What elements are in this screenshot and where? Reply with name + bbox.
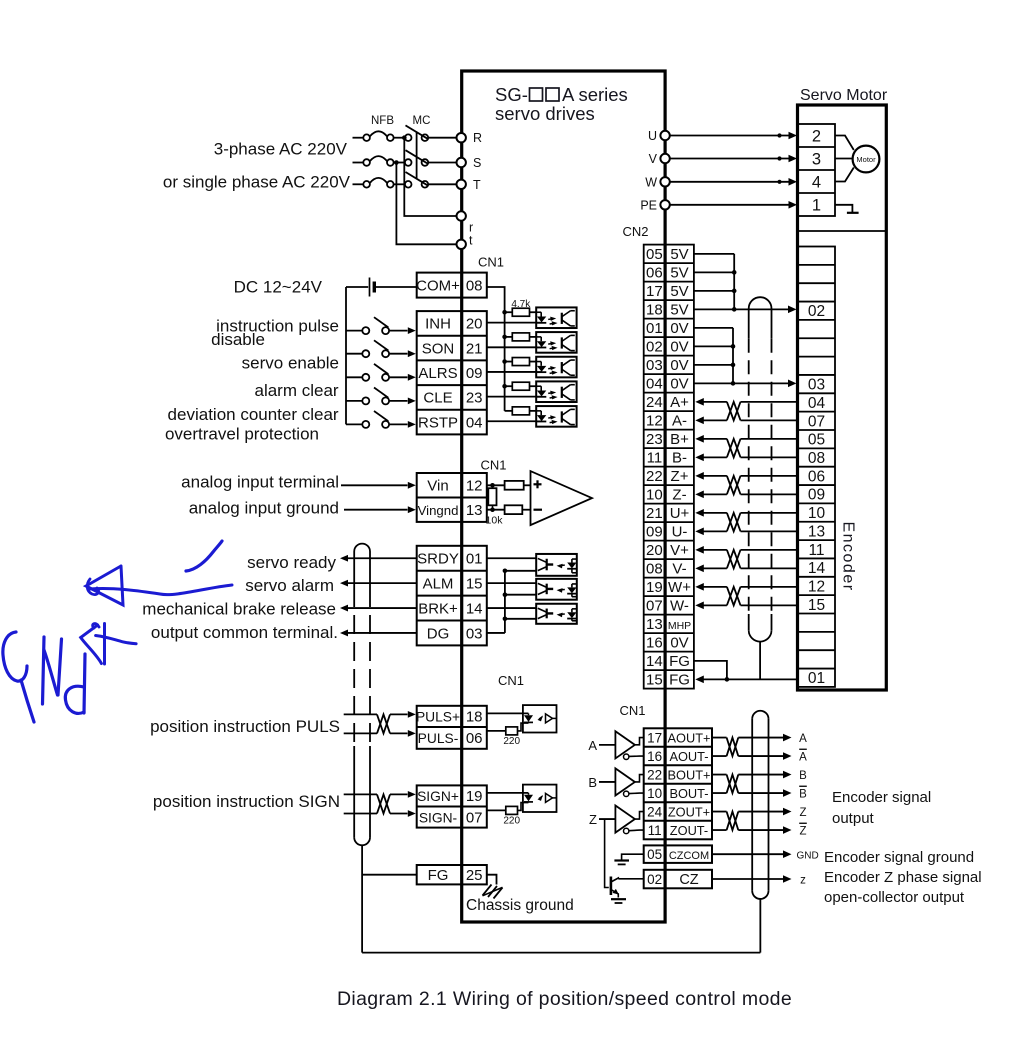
svg-text:CZCOM: CZCOM [669,850,709,862]
resistor 220 [487,730,506,732]
wire ZOUT to output arrows [738,811,783,813]
svg-text:19: 19 [646,579,663,596]
terminal U [660,131,669,140]
svg-text:11: 11 [647,450,663,467]
svg-text:Z: Z [589,812,597,827]
svg-text:05: 05 [647,847,662,862]
wire encoder pair B+ to CN2 [695,435,704,443]
wire shield bottom loop [362,952,760,954]
wire ZOUT+ [712,811,727,813]
wire output servo alarm [340,580,348,587]
junction dot 5V bus [732,270,737,275]
svg-text:position instruction PULS: position instruction PULS [150,717,340,736]
wire NFB to MC R [394,137,405,139]
wire buffer B input [599,781,615,783]
svg-text:18: 18 [466,709,483,726]
wire opto return input 3 [487,371,536,373]
wire branch to terminal t [396,163,456,245]
resistor 4.7k input 2 [505,336,513,338]
junction dot 10k bottom [490,507,495,512]
optocoupler output 2 [536,579,577,600]
svg-text:08: 08 [808,450,825,467]
svg-text:MHP: MHP [668,620,691,632]
wire opto return input 4 [487,396,536,398]
wire BOUT- [712,792,727,794]
wire twisted pair to CN1 [390,713,408,715]
connector CN1 SIGN [417,785,487,827]
svg-text:U+: U+ [670,505,690,522]
breaker NFB contact S [363,159,370,166]
svg-text:16: 16 [646,635,663,652]
svg-text:22: 22 [647,767,662,782]
svg-text:15: 15 [466,575,483,592]
svg-text:11: 11 [648,823,662,838]
junction dot 0V bus [731,344,736,349]
wire twisted pair U to encoder [741,512,799,514]
svg-text:02: 02 [647,872,662,887]
connector CN1 input table [417,311,487,434]
svg-text:10: 10 [808,505,826,522]
svg-text:t: t [469,234,473,248]
optocoupler output 1 [536,554,577,576]
switch contact input 1 [346,330,362,332]
cable shield encoder [749,297,772,308]
chassis ground symbol [483,885,492,896]
svg-text:24: 24 [647,804,663,819]
connector CN1 05 CZCOM [644,845,712,863]
transistor Q1 CZ open collector [610,877,613,896]
svg-text:07: 07 [646,598,663,615]
svg-text:BOUT+: BOUT+ [667,767,710,782]
svg-text:V-: V- [672,561,686,578]
blue scribble letter d [65,686,84,713]
wire NFB to MC S [394,162,405,164]
junction dot R branch [402,135,407,140]
svg-text:SRDY: SRDY [417,551,459,568]
svg-text:A-: A- [672,413,687,430]
wire output opto 3 [487,607,536,609]
line driver buffer Z [615,805,635,832]
svg-text:18: 18 [646,302,663,319]
svg-text:U-: U- [672,524,688,541]
wire PE to motor pin [670,204,790,206]
svg-text:deviation counter clear: deviation counter clear [168,405,339,424]
wire AOUT- [712,755,727,757]
resistor 220 [487,809,506,811]
wire twisted pair to CN1 [390,793,408,795]
servo drive enclosure box [462,71,665,922]
junction dot resistor bus [502,310,507,315]
svg-text:0V: 0V [670,635,688,652]
resistor 4.7k input 4 [505,385,513,387]
svg-text:or single phase AC 220V: or single phase AC 220V [163,172,351,191]
optocoupler output 3 [536,604,577,624]
wire encoder pair W+ to CN2 [695,583,704,591]
svg-text:B+: B+ [670,431,689,448]
wire switch to CN1 input 3 [389,376,407,378]
junction dot output bus 1 [503,569,508,574]
wire buffer Z noninverting output [635,812,644,819]
contactor MC mechanical link [416,132,418,179]
wire encoder pair V- to CN2 [695,565,704,573]
svg-text:Servo Motor: Servo Motor [800,87,888,104]
connector CN1 COM+ 08 [417,273,487,298]
svg-text:220: 220 [503,816,520,827]
svg-text:Encoder signal: Encoder signal [832,789,931,806]
svg-text:Encoder: Encoder [840,521,857,591]
svg-text:23: 23 [466,390,483,407]
connector CN2 table [644,245,694,689]
wire pulse pair [344,793,377,795]
junction dot 10k top [490,483,495,488]
wire encoder pair A- to CN2 [695,417,704,425]
svg-text:PULS-: PULS- [418,731,459,746]
svg-text:FG: FG [669,672,690,689]
junction dot resistor bus [502,359,507,364]
svg-text:Chassis ground: Chassis ground [466,897,574,914]
svg-text:Vin: Vin [427,478,448,495]
blue scribble arrow 1 [86,566,123,605]
line driver buffer A [615,731,635,758]
terminal W [660,177,669,186]
svg-text:MC: MC [413,115,431,127]
motor box divider [798,230,887,232]
wire output opto 2 [487,582,536,584]
wire twisted pair A to encoder [741,401,799,403]
wire encoder pair Z- to CN2 [695,491,704,499]
connector CN1 02 CZ [644,870,712,889]
wire encoder 01 to CN2 15 FG [695,676,704,684]
svg-text:5V: 5V [670,246,688,263]
svg-text:CN1: CN1 [619,703,645,718]
svg-text:3-phase AC 220V: 3-phase AC 220V [214,139,348,158]
twisted pair ZOUT [727,812,739,831]
svg-text:4: 4 [812,174,821,192]
svg-text:V+: V+ [670,542,689,559]
wire U to motor pin [670,135,790,137]
optocoupler input 3 [536,357,576,378]
wire twisted pair B to encoder [741,438,799,440]
wire 0V bus [694,327,733,329]
resistor 4.7k input 5 [505,410,513,412]
svg-text:GND: GND [797,850,819,861]
svg-text:19: 19 [466,788,483,805]
svg-text:NFB: NFB [371,115,394,127]
wire 0V to encoder 03 [733,382,789,384]
svg-text:06: 06 [808,468,825,485]
svg-text:W-: W- [670,598,689,615]
svg-text:12: 12 [646,413,663,430]
blue scribble letter G [3,632,27,681]
wire AOUT+ [712,737,727,739]
svg-text:V: V [649,152,658,166]
junction dot S branch [394,160,399,165]
svg-text:03: 03 [646,357,663,374]
svg-text:CN1: CN1 [480,458,506,473]
svg-text:14: 14 [808,560,826,577]
svg-text:3: 3 [812,151,821,169]
svg-text:13: 13 [646,616,663,633]
terminal t [457,240,466,249]
wire CN2 14 FG [694,661,727,680]
svg-text:15: 15 [646,672,663,689]
svg-text:PULS+: PULS+ [416,710,460,725]
svg-text:0V: 0V [670,320,688,337]
twisted pair V [727,550,741,569]
svg-text:output common terminal.: output common terminal. [151,623,338,642]
wire AC input T phase [353,183,364,185]
terminal T [457,180,466,189]
svg-text:FG: FG [428,867,449,884]
wire V to motor pin [670,158,790,160]
svg-text:open-collector output: open-collector output [824,889,965,906]
wire analog input terminal [341,484,408,486]
svg-text:01: 01 [646,320,663,337]
wire CZ output [712,878,783,880]
svg-text:SIGN-: SIGN- [419,810,457,825]
svg-text:A series: A series [562,84,628,105]
svg-text:AOUT-: AOUT- [669,749,708,764]
resistor 4.7k input 3 [505,361,513,363]
wire BOUT to output arrows [738,774,783,776]
svg-text:RSTP: RSTP [418,414,458,431]
svg-text:ZOUT-: ZOUT- [670,823,708,838]
switch contact input 5 [346,423,362,425]
svg-text:PE: PE [640,198,657,212]
svg-text:DG: DG [427,625,450,642]
svg-text:03: 03 [808,377,825,394]
motor connector pins 2 3 4 1 [798,124,835,216]
svg-text:Encoder signal ground: Encoder signal ground [824,849,974,866]
wire pin3 to motor [835,158,852,160]
wire FG to chassis ground [487,875,497,885]
junction dot 5V bus [732,289,737,294]
svg-text:22: 22 [646,468,663,485]
wire shield drain left [361,845,363,952]
svg-text:r: r [469,221,473,235]
wire switch to CN1 input 1 [389,330,407,332]
svg-text:25: 25 [466,867,483,884]
svg-text:05: 05 [646,246,663,263]
twisted pair U [727,513,741,532]
svg-text:13: 13 [466,502,483,519]
wire shield drain to FG [362,874,417,876]
svg-text:analog input terminal: analog input terminal [181,473,339,492]
connector CN1 PULS [417,706,487,749]
wire encoder pair U+ to CN2 [695,509,704,517]
svg-text:BOUT-: BOUT- [669,786,708,801]
switch contact input 4 [346,400,362,402]
terminal PE [660,200,669,209]
svg-text:0V: 0V [670,339,688,356]
svg-text:5V: 5V [670,265,688,282]
svg-text:220: 220 [503,736,520,747]
svg-text:Z: Z [799,807,806,819]
optocoupler input 5 [536,406,576,427]
svg-text:z: z [800,874,806,886]
wire CN1 to opto LED [487,712,529,714]
svg-text:14: 14 [466,600,483,617]
optocoupler input 1 [536,307,576,328]
wire pin1 to chassis ground [835,205,852,213]
svg-text:08: 08 [466,277,483,294]
svg-text:SON: SON [422,340,455,357]
svg-text:04: 04 [808,395,826,412]
connector CN1 output table [417,546,487,646]
svg-text:17: 17 [646,283,663,300]
twisted pair BOUT [727,775,739,794]
svg-text:1: 1 [812,197,821,215]
svg-text:position instruction SIGN: position instruction SIGN [153,792,340,811]
wire branch to terminal r [404,138,456,216]
svg-text:06: 06 [466,730,483,747]
breaker NFB contact T [363,181,370,188]
svg-text:20: 20 [646,542,663,559]
svg-text:21: 21 [466,340,483,357]
wire opto return input 1 [487,322,536,324]
svg-text:23: 23 [646,431,663,448]
svg-text:Encoder Z phase signal: Encoder Z phase signal [824,869,982,886]
wire MC to terminal R [428,137,456,139]
wire resistor to opto [518,723,529,731]
junction dot 5V bus [732,307,737,312]
svg-text:CN1: CN1 [478,255,504,270]
svg-text:24: 24 [646,394,663,411]
svg-text:07: 07 [466,809,483,826]
svg-text:servo drives: servo drives [495,103,595,124]
svg-text:A: A [799,733,807,745]
svg-text:A+: A+ [670,394,689,411]
svg-text:Z: Z [799,825,806,837]
svg-text:servo ready: servo ready [247,553,336,572]
wire switch to CN1 input 5 [389,423,407,425]
svg-text:06: 06 [646,265,663,282]
blue scribble arrow 2 [93,624,99,628]
switch contact input 2 [346,353,362,355]
svg-text:Vingnd: Vingnd [418,503,459,518]
junction dot W wire [777,180,781,184]
svg-text:05: 05 [808,432,825,449]
svg-text:output: output [832,810,875,827]
ground symbol transistor emitter [611,898,626,900]
svg-text:overtravel protection: overtravel protection [165,425,319,444]
svg-text:14: 14 [646,653,663,670]
optocoupler input 2 [536,332,576,353]
wire ZOUT- [712,829,727,831]
wire 5V bus [694,253,734,255]
resistor op-amp inverting input [505,505,523,514]
wire buffer B noninverting output [635,775,644,782]
wire encoder pair Z+ to CN2 [695,472,704,480]
svg-text:alarm clear: alarm clear [255,381,339,400]
svg-text:09: 09 [466,365,483,382]
svg-text:01: 01 [808,670,825,687]
twisted pair Z [727,476,741,495]
op-amp U1 [531,471,593,525]
ground symbol CZCOM [622,854,644,860]
twisted pair B [727,439,741,458]
wire output mechanical brake release [340,605,348,612]
optocoupler input 4 [536,381,576,402]
encoder connector cells [798,247,835,687]
wire switch to CN1 input 2 [389,353,407,355]
svg-text:17: 17 [647,730,662,745]
svg-text:Motor: Motor [856,155,876,164]
svg-text:12: 12 [808,578,825,595]
resistor 4.7k input 1 [505,311,513,313]
cable shield left outputs [354,544,370,552]
svg-text:CN2: CN2 [622,224,648,239]
wire DG to opto bus [487,632,505,634]
svg-text:Z-: Z- [672,487,686,504]
svg-text:A: A [588,738,597,753]
svg-text:W: W [645,175,657,189]
svg-text:16: 16 [647,749,662,764]
svg-text:SG-: SG- [495,84,528,105]
wire twisted pair Z to encoder [741,475,799,477]
wire pin2 to motor [835,136,854,151]
wire shield drain to FG [759,642,761,680]
svg-text:B: B [588,775,597,790]
wire encoder pair B- to CN2 [695,454,704,462]
twisted pair pulse [377,794,390,813]
wire pin4 to motor [835,168,854,182]
twisted pair AOUT [727,738,739,757]
svg-text:analog input ground: analog input ground [189,498,339,517]
svg-text:11: 11 [808,542,824,559]
svg-text:01: 01 [466,551,483,568]
contactor MC contact S [405,159,412,166]
contactor MC contact T [405,181,412,188]
wire AOUT to output arrows [738,737,783,739]
wire CZCOM output [712,853,783,855]
svg-text:COM+: COM+ [416,277,460,294]
svg-text:02: 02 [646,339,663,356]
wire twisted pair W to encoder [741,586,799,588]
svg-text:03: 03 [466,625,483,642]
servo motor enclosure box [798,105,887,690]
svg-text:B-: B- [672,450,687,467]
motor circle [853,146,880,173]
svg-text:U: U [648,129,657,143]
svg-text:21: 21 [646,505,663,522]
optocoupler pulse input [523,705,557,732]
svg-text:04: 04 [646,376,663,393]
resistor 10k [492,485,494,488]
junction dot resistor bus [502,384,507,389]
svg-text:5V: 5V [670,302,688,319]
cable shield encoder output [752,711,768,719]
wire COM+ to resistor bus [487,287,505,411]
twisted pair pulse [377,714,390,733]
wire W to motor pin [670,181,790,183]
svg-text:AOUT+: AOUT+ [667,730,710,745]
svg-text:FG: FG [669,653,690,670]
wire NFB to MC T [394,183,405,185]
wire encoder pair U- to CN2 [695,528,704,536]
svg-text:02: 02 [808,303,825,320]
connector CN1 FG 25 [417,865,487,884]
svg-text:SIGN+: SIGN+ [417,789,459,804]
connector CN1 Vin Vingnd [417,473,487,522]
wire Z to transistor base [605,819,609,887]
svg-text:5V: 5V [670,283,688,300]
blue scribble letter N [43,637,45,704]
svg-text:13: 13 [808,523,825,540]
switch contact input 3 [346,376,362,378]
twisted pair W [727,587,741,606]
svg-text:R: R [473,131,482,145]
